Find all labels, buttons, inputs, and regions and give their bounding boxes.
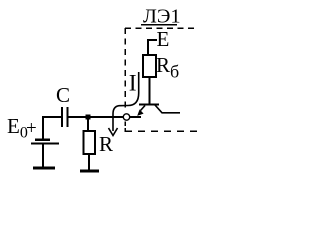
wire battery to ground (42, 144, 44, 167)
current I arrowhead (109, 128, 118, 136)
svg-text:Rб: Rб (156, 53, 179, 82)
wire E to Rb (148, 40, 157, 55)
transistor emitter with arrow (141, 106, 146, 111)
transistor collector (155, 105, 180, 113)
current I curved arrow (113, 72, 139, 131)
transistor base bar (139, 104, 159, 106)
dashed box bottom-left corner (125, 128, 132, 131)
capacitor C left plate (61, 107, 63, 127)
wire Rb to transistor base (149, 77, 151, 104)
svg-text:E0: E0 (7, 114, 28, 142)
dashed box left edge (124, 28, 126, 111)
ground under R (80, 170, 99, 173)
junction node dot (86, 115, 91, 120)
svg-text:+: + (26, 118, 37, 139)
svg-text:I: I (129, 71, 137, 97)
dashed box top edge (125, 27, 195, 29)
resistor R lead to ground (88, 154, 90, 170)
dashed box left edge below pin (124, 122, 126, 127)
battery E0 long plate (31, 143, 59, 145)
ground under E0 (33, 167, 55, 170)
resistor R lead from node (87, 117, 89, 131)
svg-text:E: E (157, 27, 170, 51)
wire capacitor to transistor emitter (68, 116, 141, 118)
capacitor C right plate (67, 107, 69, 127)
input pin circle on box boundary (123, 114, 129, 120)
resistor R body (84, 131, 96, 154)
svg-text:R: R (99, 132, 113, 156)
label underline (141, 24, 177, 26)
svg-text:C: C (56, 83, 70, 107)
wire from battery up to capacitor (43, 117, 61, 139)
battery E0 short positive plate (35, 139, 50, 141)
dashed box bottom edge (138, 130, 197, 132)
resistor Rb body (143, 55, 156, 77)
